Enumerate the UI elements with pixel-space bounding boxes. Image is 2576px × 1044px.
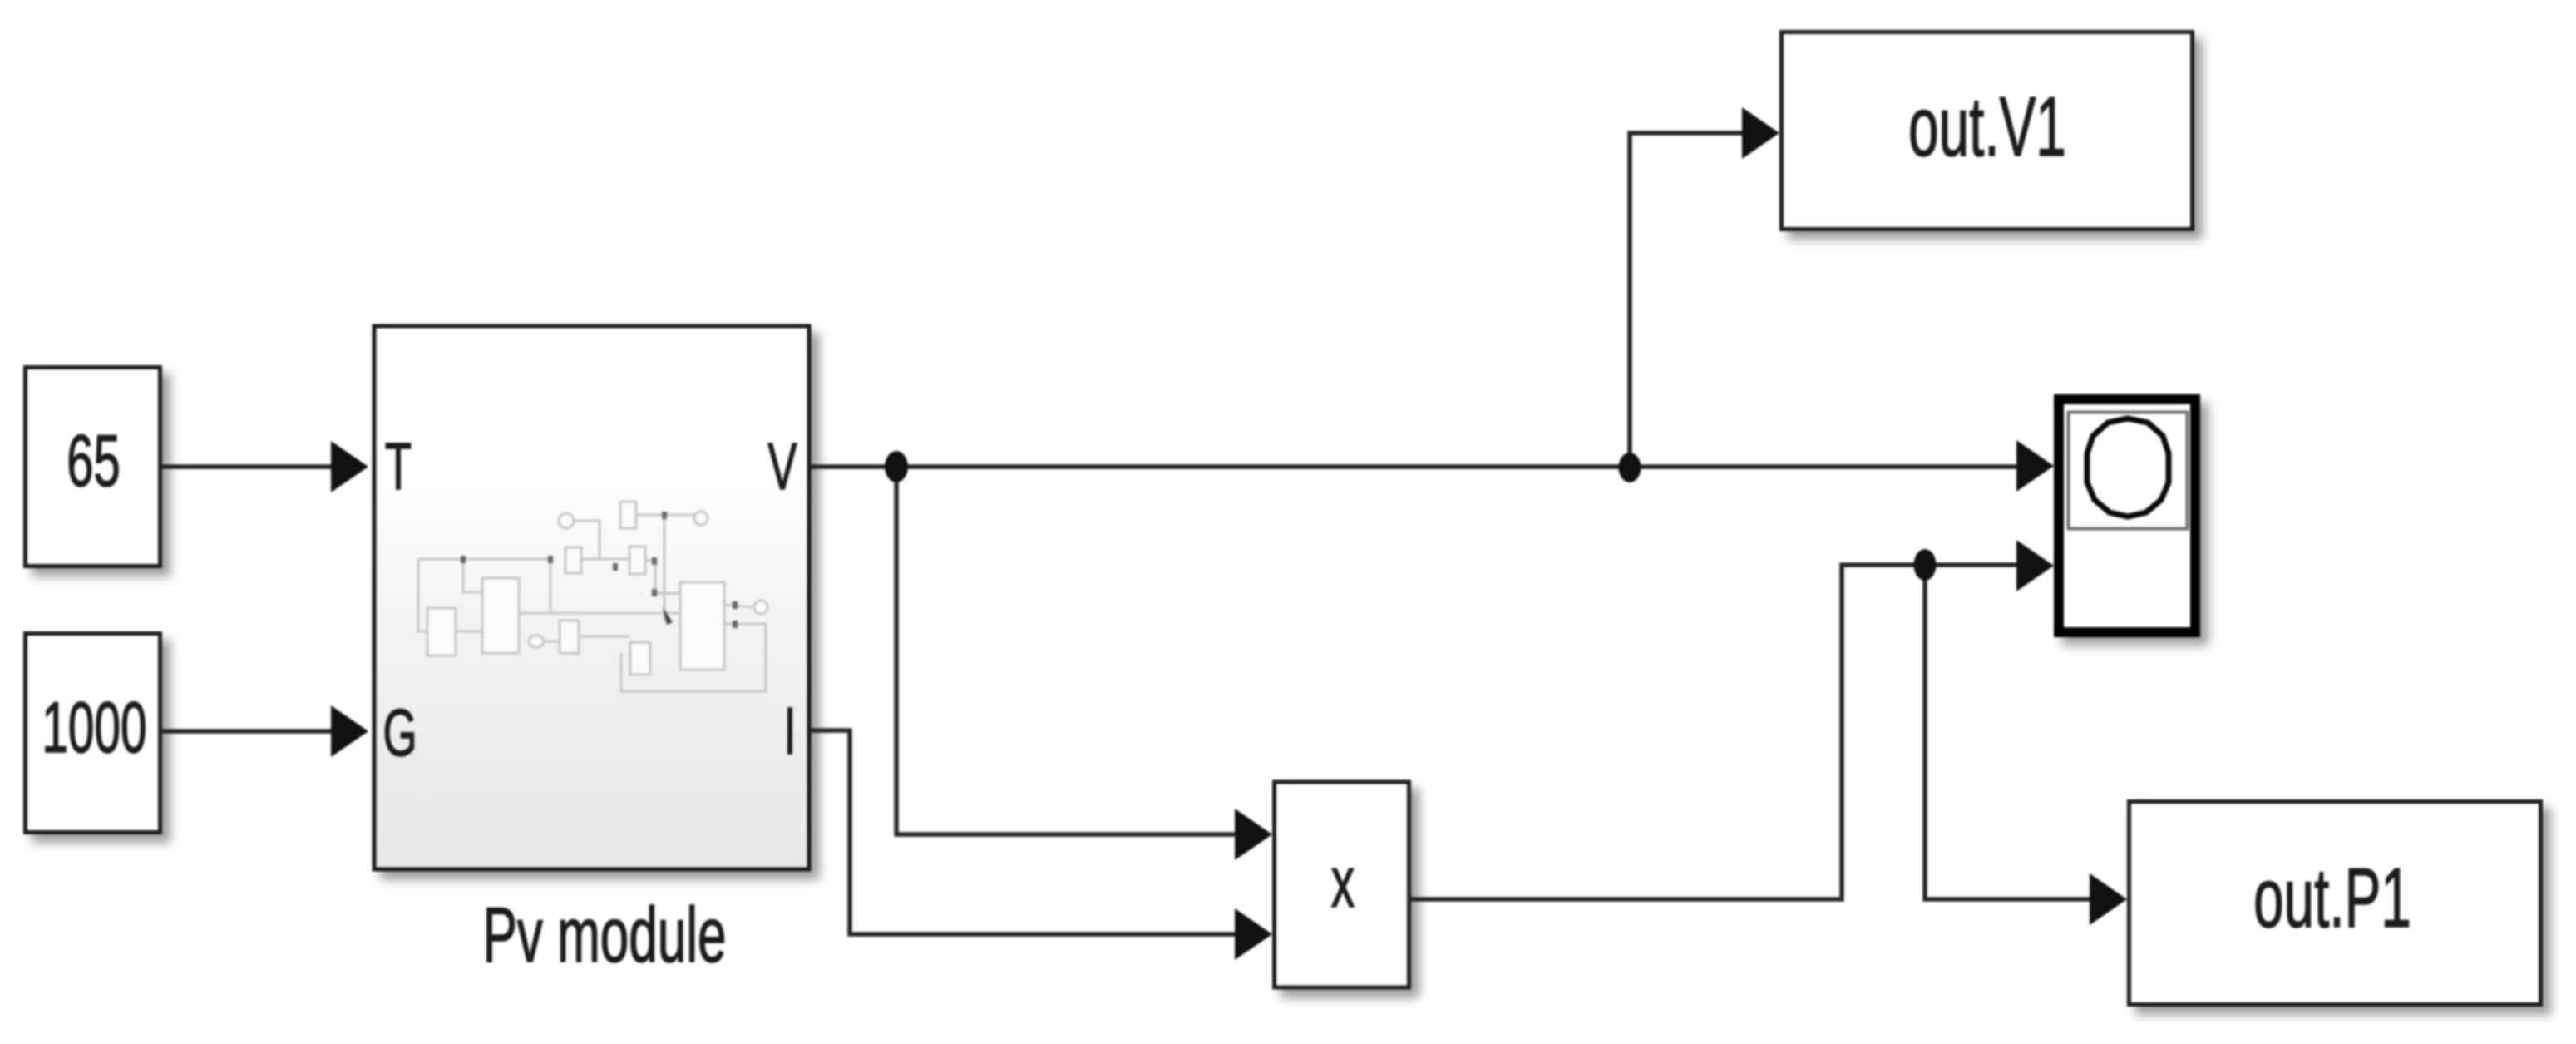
svg-text:out.V1: out.V1 — [1908, 81, 2066, 175]
svg-text:G: G — [382, 696, 417, 770]
svg-text:out.P1: out.P1 — [2253, 852, 2411, 946]
svg-text:1000: 1000 — [42, 688, 146, 768]
svg-text:I: I — [784, 695, 797, 769]
svg-text:V: V — [767, 430, 797, 504]
svg-text:T: T — [385, 430, 412, 504]
svg-text:65: 65 — [67, 420, 121, 502]
svg-text:Pv module: Pv module — [482, 891, 726, 978]
svg-text:x: x — [1331, 843, 1355, 923]
